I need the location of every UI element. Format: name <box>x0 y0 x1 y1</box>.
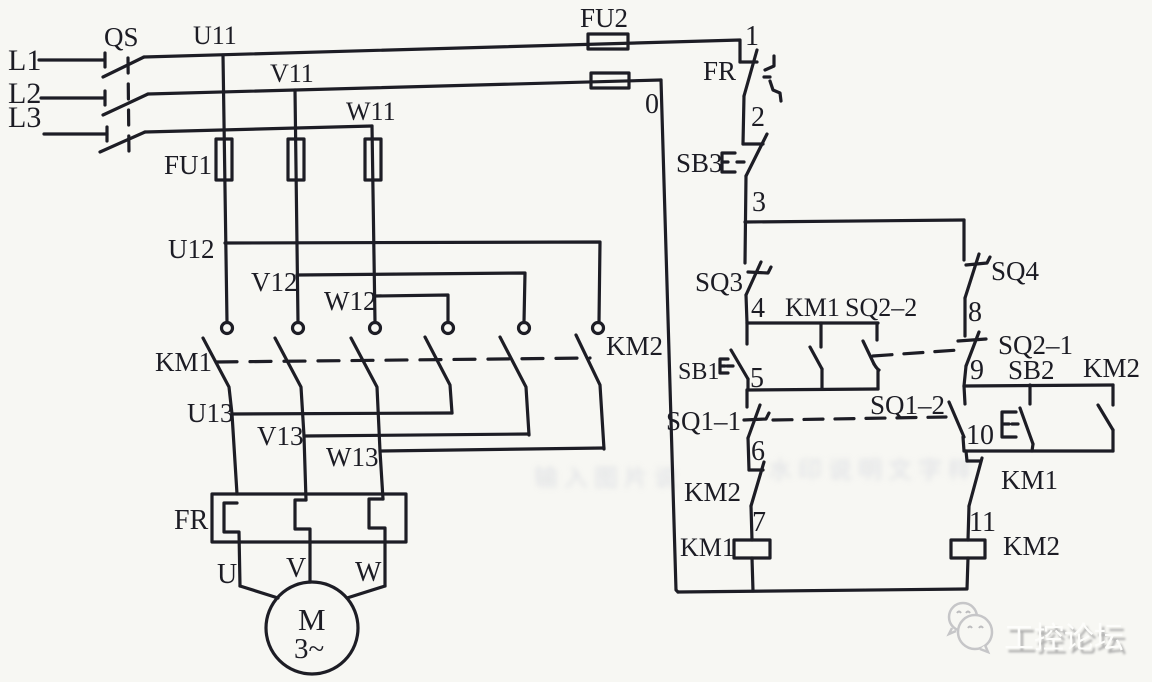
svg-text:FU1: FU1 <box>164 150 212 180</box>
fuse FU2 upper <box>588 34 628 49</box>
faint scan watermark right cluster <box>768 450 978 485</box>
svg-text:W12: W12 <box>324 286 376 316</box>
svg-text:FR: FR <box>174 505 209 536</box>
svg-text:3~: 3~ <box>294 633 324 665</box>
wire phase V vertical <box>295 90 298 322</box>
contactor KM1 main blade pole3 <box>351 338 383 499</box>
wire node 6 <box>748 438 749 470</box>
wire L3 lead <box>44 132 107 135</box>
switch QS pole 3 <box>100 127 145 152</box>
wire KM1 coil to bus <box>752 558 753 591</box>
svg-text:9: 9 <box>970 355 984 386</box>
svg-text:11: 11 <box>969 507 996 538</box>
wire bar node 9 <box>964 385 1113 386</box>
wire bar V13 <box>304 434 529 436</box>
wire bar node 10 <box>964 449 1113 452</box>
svg-text:3: 3 <box>752 187 766 218</box>
svg-text:0: 0 <box>645 89 659 120</box>
node terminal circle pole2 <box>293 323 304 334</box>
wire node 11 <box>968 506 969 540</box>
contactor KM2 main blade pole6 <box>576 335 604 449</box>
logo icon chat bubbles <box>949 603 992 652</box>
wire L1 lead <box>39 58 104 61</box>
svg-text:6: 6 <box>751 436 765 467</box>
svg-text:SQ3: SQ3 <box>695 267 743 297</box>
limit switch SQ2-2 contact <box>863 323 879 389</box>
svg-text:V: V <box>286 553 306 584</box>
thermal relay FR box <box>212 494 406 542</box>
wire L2 lead <box>41 96 104 99</box>
wire node 4 <box>746 295 747 323</box>
limit switch SQ3 contact <box>746 262 771 295</box>
contactor KM2 main blade pole5 <box>500 337 529 435</box>
wire bar node3 to right branch <box>745 220 964 222</box>
svg-text:V12: V12 <box>251 267 298 297</box>
wire node 1 drop / contact FR top lead <box>740 50 757 96</box>
svg-text:W11: W11 <box>346 97 396 126</box>
node terminal circle pole4 <box>443 323 454 334</box>
wire node 9 <box>964 366 966 386</box>
switch QS pole 2 <box>103 91 148 115</box>
svg-text:1: 1 <box>745 21 759 52</box>
svg-text:W: W <box>355 557 382 588</box>
svg-text:SQ4: SQ4 <box>991 256 1040 286</box>
wire bar U13 <box>232 413 452 414</box>
svg-text:V13: V13 <box>257 421 304 451</box>
pushbutton SB2 contact <box>1002 385 1033 451</box>
pushbutton SB3 contact <box>722 96 767 176</box>
node terminal circle pole3 <box>370 323 381 334</box>
contactor KM2 main blade pole4 <box>425 337 452 413</box>
logo text 工控论坛 <box>1004 613 1124 657</box>
svg-text:U13: U13 <box>187 398 234 428</box>
wire node 7 <box>751 506 752 540</box>
wire node 3 <box>745 176 746 263</box>
svg-text:M: M <box>298 602 326 637</box>
svg-text:SQ2–2: SQ2–2 <box>845 293 917 322</box>
fuse FU2 lower <box>591 73 629 88</box>
fuse FU1 pole U <box>216 139 232 180</box>
svg-text:2: 2 <box>751 102 765 133</box>
svg-text:SB2: SB2 <box>1008 355 1055 385</box>
svg-text:L3: L3 <box>8 101 41 134</box>
contactor KM1 aux contact <box>810 323 822 389</box>
svg-text:SQ1–2: SQ1–2 <box>870 390 945 420</box>
wire phase U vertical <box>223 55 227 322</box>
node terminal circle pole5 <box>519 323 530 334</box>
wire bus V11 <box>148 80 661 94</box>
wire bar U12 <box>225 242 600 322</box>
motor M circle <box>266 582 358 674</box>
svg-text:SQ1–1: SQ1–1 <box>666 406 741 436</box>
svg-text:U11: U11 <box>193 21 237 50</box>
node terminal circle pole6 <box>593 323 604 334</box>
svg-text:4: 4 <box>751 293 765 324</box>
thermal relay FR heater W <box>369 499 385 586</box>
svg-text:V11: V11 <box>270 59 314 88</box>
svg-text:7: 7 <box>752 507 766 538</box>
thermal relay FR heater V <box>295 500 310 582</box>
wire KM2 coil to bus <box>967 558 968 589</box>
wire bus U11 <box>144 40 740 62</box>
svg-text:KM2: KM2 <box>1003 531 1060 561</box>
thermal relay FR hook symbol <box>764 56 781 101</box>
limit switch SQ4 contact <box>965 254 990 298</box>
wire motor lead W <box>347 586 385 598</box>
wire bar W13 <box>380 448 604 451</box>
svg-text:SB3: SB3 <box>676 148 723 178</box>
svg-text:KM1: KM1 <box>1001 465 1058 495</box>
svg-text:L1: L1 <box>8 44 41 77</box>
limit switch SQ1-2 contact <box>949 386 965 451</box>
svg-text:SB1: SB1 <box>678 359 719 385</box>
wire bar node 4 <box>747 321 878 324</box>
svg-text:KM2: KM2 <box>1083 353 1140 383</box>
contactor KM1 main blade pole1 <box>203 338 237 494</box>
contactor KM2 aux contact <box>1098 385 1113 451</box>
fuse FU1 pole W <box>365 139 381 180</box>
svg-text:QS: QS <box>104 22 139 52</box>
wire bar W12 <box>375 295 448 322</box>
contactor KM2 NC contact <box>749 462 764 506</box>
svg-text:FR: FR <box>703 56 736 86</box>
switch QS linkage dashed <box>128 58 129 155</box>
switch QS pole 1 <box>103 53 144 77</box>
svg-text:KM2: KM2 <box>684 477 741 507</box>
wire bottom bus <box>678 589 966 592</box>
faint scan watermark left cluster <box>534 458 684 493</box>
limit switch SQ1-1 contact <box>744 390 769 438</box>
svg-text:5: 5 <box>750 363 764 394</box>
coil KM2 <box>951 540 985 558</box>
wire phase W vertical <box>372 126 375 322</box>
svg-text:U12: U12 <box>168 234 215 264</box>
svg-text:KM1: KM1 <box>680 533 735 562</box>
linkage dashed SQ2-2 to SQ2-1 <box>873 350 958 356</box>
limit switch SQ2-1 contact <box>958 332 986 366</box>
contactor KM1 NC contact right <box>966 451 982 506</box>
wire node 8 <box>963 298 966 336</box>
wire right branch drop <box>962 220 965 260</box>
svg-text:U: U <box>217 559 237 590</box>
svg-text:W13: W13 <box>326 442 378 472</box>
svg-text:KM1: KM1 <box>155 347 212 377</box>
wire motor lead U <box>240 586 278 598</box>
thermal relay FR heater U <box>224 503 240 586</box>
svg-text:KM1: KM1 <box>785 293 840 322</box>
wire bar V12 <box>297 273 525 322</box>
svg-text:FU2: FU2 <box>580 3 628 33</box>
fuse FU1 pole V <box>288 139 304 180</box>
svg-text:10: 10 <box>966 420 994 451</box>
pushbutton SB1 contact <box>720 323 748 390</box>
svg-text:8: 8 <box>968 297 982 328</box>
wire bus W11 <box>145 126 372 132</box>
wire neutral 0 line <box>661 80 678 592</box>
linkage dashed KM1-KM2 <box>216 358 590 362</box>
node terminal circle pole1 <box>222 323 233 334</box>
coil KM1 <box>734 540 770 558</box>
linkage dashed SQ1-1 to SQ1-2 <box>773 417 946 420</box>
wire bar node 5 <box>747 389 878 390</box>
svg-text:KM2: KM2 <box>606 331 663 361</box>
contactor KM1 main blade pole2 <box>275 338 306 500</box>
